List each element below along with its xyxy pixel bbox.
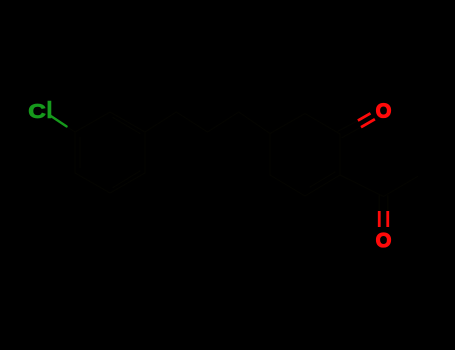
right ring	[270, 114, 340, 197]
svg-text:C: C	[28, 100, 46, 123]
svg-text:l: l	[46, 97, 52, 123]
methyl	[384, 177, 418, 197]
dark halves of C=O1	[338, 121, 361, 138]
dark half of Cl bond	[63, 124, 76, 132]
svg-text:O: O	[376, 101, 392, 123]
bond to acetyl	[340, 175, 384, 197]
benzene inner bonds	[80, 118, 140, 188]
svg-text:O: O	[376, 230, 392, 252]
chain	[145, 112, 270, 134]
dark half of C2=O2	[379, 196, 388, 212]
green half bond	[51, 116, 67, 127]
ring2 double bond inner	[310, 172, 335, 187]
red half bonds	[358, 113, 388, 227]
benzene ring left	[75, 112, 145, 193]
